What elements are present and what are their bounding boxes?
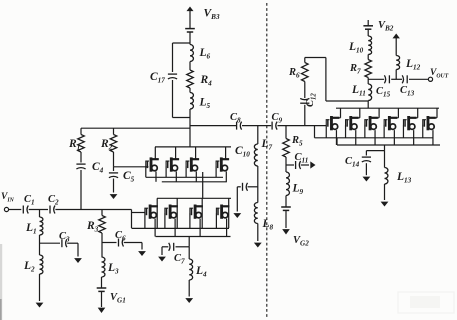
source stub M14 (432, 130, 434, 145)
ground of L4 (185, 280, 193, 303)
gate tick M5 (144, 213, 146, 228)
label L1 (25, 222, 37, 236)
drain rail right segment (190, 125, 237, 127)
svg-text:L5: L5 (199, 97, 211, 111)
gate feed step (132, 210, 145, 229)
gate tick M12 (383, 125, 385, 138)
label R7 (349, 63, 361, 76)
output row gate bus (315, 137, 434, 139)
label C8 (230, 112, 241, 125)
svg-text:C11: C11 (295, 152, 309, 165)
output row bottom rail (337, 144, 440, 146)
gate tick M7 (189, 213, 191, 228)
ground of L2 (36, 274, 44, 308)
capacitor C17 (168, 74, 177, 79)
svg-text:L6: L6 (199, 47, 211, 61)
transistor M4 cascode (216, 157, 229, 171)
wire R2 to node (113, 152, 115, 167)
inductor L10 (368, 36, 371, 55)
drain stub M1 (154, 147, 156, 159)
ground of C14 (363, 163, 371, 181)
drain rail left segment (81, 127, 190, 129)
feedback wire to drain node (305, 58, 368, 102)
gate bus to source rail link (336, 138, 338, 145)
wire L7 to C10 node (257, 166, 259, 203)
label C2 (48, 194, 59, 207)
gate tick M3 (185, 166, 187, 177)
gate tick M9 (325, 125, 327, 138)
supply stub VB2 rail (367, 20, 369, 26)
svg-text:C8: C8 (230, 112, 241, 125)
capacitor C6 branch (102, 239, 124, 247)
svg-text:VB2: VB2 (378, 20, 394, 33)
source stub M12 (393, 130, 395, 145)
label VG1 (110, 292, 126, 305)
gate tick M6 (164, 213, 166, 228)
wire source rail to tee (366, 145, 384, 151)
bias source VG2 (281, 196, 291, 211)
label L10 (348, 41, 364, 55)
svg-text:R4: R4 (200, 74, 213, 88)
capacitor C10 branch (243, 183, 258, 191)
drain stub M13 (416, 108, 418, 118)
arrow VG1 (98, 292, 106, 314)
svg-text:L10: L10 (348, 41, 364, 55)
capacitor C13 (402, 75, 407, 83)
capacitor C2 (50, 206, 55, 214)
svg-text:VG1: VG1 (110, 292, 126, 305)
transistor M9 output (326, 116, 339, 130)
source stub M2 (175, 172, 177, 182)
capacitor C12 (300, 98, 309, 125)
transistor M6 input (165, 205, 178, 219)
label R6 (288, 67, 300, 80)
drain stub M11 (377, 108, 379, 118)
label C15 (376, 86, 391, 99)
resistor R4 (187, 70, 194, 88)
ground of C10 (233, 187, 241, 218)
svg-text:C14: C14 (345, 156, 360, 169)
svg-text:L1: L1 (25, 222, 37, 236)
ground of C3 (67, 243, 82, 263)
capacitor C7 branch (169, 243, 190, 251)
wire node to C17 branch (173, 42, 191, 44)
inductor L5 (190, 93, 193, 110)
capacitor C17 branch wire lower (173, 80, 191, 118)
drain stub M9 (338, 108, 340, 118)
svg-text:L2: L2 (23, 260, 35, 274)
svg-text:C3: C3 (59, 231, 70, 244)
source stub M7 (199, 219, 201, 237)
gate tick M13 (402, 125, 404, 138)
label L3 (107, 262, 119, 276)
label C10 (235, 145, 250, 159)
power supply VB3 arrow (187, 7, 194, 29)
drain stub M12 (396, 108, 398, 118)
wire L10-R7 (367, 55, 369, 60)
cascode gate bus (146, 176, 223, 178)
source stub M5 (154, 219, 156, 237)
interstage shunt wire (257, 126, 259, 144)
svg-text:C5: C5 (123, 170, 135, 184)
wire node to C15 (368, 78, 384, 80)
resistor R1 (78, 128, 85, 152)
source stub M1 (155, 172, 157, 182)
input row gate bus (132, 227, 230, 229)
svg-text:C6: C6 (115, 230, 126, 243)
wire R3 node (101, 233, 103, 257)
gate tick M1 (145, 166, 147, 177)
drain stub M4 (225, 147, 227, 159)
drain stub M5 (156, 198, 158, 228)
capacitor C11 branch (286, 161, 301, 169)
resistor R6 (301, 63, 308, 82)
label C9 (272, 112, 283, 125)
source stub M13 (413, 130, 415, 145)
svg-text:L4: L4 (195, 265, 207, 279)
label C7 (174, 253, 185, 266)
svg-text:C17: C17 (150, 71, 165, 85)
resistor R7 (365, 60, 372, 78)
svg-text:C9: C9 (272, 112, 283, 125)
transistor M5 input (145, 205, 158, 219)
resistor R3 (99, 210, 106, 234)
svg-text:C7: C7 (174, 253, 185, 266)
bypass/feed symbol at VB3 (185, 29, 195, 32)
resistor R2 (110, 128, 117, 152)
wire L11 to output rail (367, 101, 369, 109)
label R1 (68, 138, 80, 152)
capacitor C1 (23, 206, 28, 214)
svg-text:R1: R1 (68, 138, 80, 152)
ground of C7 (158, 247, 168, 262)
label R4 (200, 74, 213, 88)
inductor L9 (286, 172, 289, 196)
label C6 (115, 230, 126, 243)
label C11 (295, 152, 309, 165)
drain stub M14 (435, 108, 437, 118)
transistor M12 output (384, 116, 397, 130)
capacitor C17 branch wire upper (172, 43, 174, 72)
transistor M10 output (346, 116, 359, 130)
wire cascode gate feed (114, 166, 149, 168)
output terminal (428, 77, 432, 81)
label L8 (262, 218, 274, 232)
svg-text:C2: C2 (48, 194, 59, 207)
ground of C5 (110, 179, 118, 200)
drain stub M8 (228, 198, 230, 228)
transistor M7 input (190, 205, 203, 219)
drain stub M10 (358, 108, 360, 118)
svg-text:R7: R7 (349, 63, 361, 76)
svg-text:L8: L8 (262, 218, 274, 232)
svg-text:C4: C4 (92, 161, 104, 175)
label L11 (351, 84, 366, 98)
svg-text:R6: R6 (288, 67, 300, 80)
wire R4-L5 (189, 88, 191, 93)
inductor L13 (385, 151, 388, 184)
arrow VB2 (393, 34, 400, 56)
inductor L1 (40, 210, 43, 236)
gate feed to output row (314, 126, 316, 138)
resistor R5 (283, 126, 290, 157)
label L7 (261, 138, 273, 152)
svg-text:L3: L3 (107, 262, 119, 276)
label L12 (405, 58, 421, 72)
source stub M8 (226, 219, 228, 237)
cascode row top rail (155, 146, 231, 148)
wire C13 to output terminal (409, 78, 428, 80)
wire C12-R6 (304, 82, 306, 99)
svg-text:L11: L11 (351, 84, 366, 98)
wire C2 to gate line (55, 209, 131, 211)
label VIN (1, 192, 15, 204)
svg-text:C1: C1 (24, 194, 35, 207)
ground arrow of C11 (301, 161, 316, 168)
source stub M3 (195, 172, 197, 182)
svg-text:L13: L13 (396, 171, 412, 185)
inductor L11 (368, 84, 371, 101)
capacitor C9 (272, 122, 277, 130)
transistor M14 output (423, 116, 436, 130)
inductor L2 (40, 255, 43, 274)
capacitor C8 (237, 122, 242, 130)
inductor L8 (254, 203, 257, 224)
transistor M1 cascode (146, 157, 159, 171)
wire C8-C9 (242, 125, 271, 127)
transistor M13 output (403, 116, 416, 130)
wire to L10 (367, 30, 369, 36)
label VOUT (430, 68, 449, 80)
wire source rail to L4 (188, 237, 190, 247)
inductor L7 (254, 144, 257, 166)
bias source VG1 (97, 277, 107, 291)
svg-text:VB3: VB3 (204, 8, 220, 22)
label C14 (345, 156, 360, 169)
gate tick M14 (422, 125, 424, 138)
drain stub M2 (175, 147, 177, 159)
arrow VG2 (282, 211, 290, 235)
wire R1-C4 (80, 152, 82, 163)
label C1 (24, 194, 35, 207)
label L13 (396, 171, 412, 185)
wire C15-C13 (391, 78, 402, 80)
wire R5 node (285, 157, 287, 172)
inductor L6 (190, 43, 193, 62)
gate tick M4 (215, 166, 217, 177)
drain stub M3 (195, 147, 197, 159)
transistor M11 output (365, 116, 378, 130)
capacitor C5 (109, 167, 118, 178)
inductor L12 branch (396, 56, 399, 80)
capacitor C3 branch (40, 239, 67, 247)
svg-text:R2: R2 (100, 138, 113, 152)
stage boundary dashed line (266, 3, 268, 318)
transistor M2 cascode (166, 157, 179, 171)
wire L6-R4 (189, 62, 191, 71)
label C12 (305, 93, 317, 107)
inductor L4 (189, 247, 192, 280)
gate tick M8 (215, 213, 217, 228)
drain stub M6 (176, 198, 178, 228)
capacitor C4 (76, 164, 85, 169)
wire C9 to gate network (278, 125, 327, 127)
label C13 (400, 85, 415, 98)
transistor M3 cascode (186, 157, 199, 171)
source stub M10 (355, 130, 357, 145)
source stub M4 (225, 172, 227, 182)
label C4 (92, 161, 104, 175)
label C5 (123, 170, 135, 184)
svg-text:VOUT: VOUT (430, 68, 449, 80)
wire L5 to drain rail (189, 109, 191, 147)
label L5 (199, 97, 211, 111)
ground of L8 (254, 224, 262, 248)
bypass/feed symbol at VB2 rail (363, 26, 373, 29)
svg-text:C10: C10 (235, 145, 250, 159)
label L4 (195, 265, 207, 279)
ground of C6 (124, 243, 146, 257)
capacitor C15 (384, 75, 389, 83)
label C3 (59, 231, 70, 244)
svg-text:VIN: VIN (1, 192, 15, 204)
label L6 (199, 47, 211, 61)
svg-text:C13: C13 (400, 85, 415, 98)
svg-text:C15: C15 (376, 86, 391, 99)
cascode to input row connector (202, 172, 204, 198)
svg-text:L9: L9 (292, 183, 304, 197)
wire VIN-C1 (9, 209, 22, 211)
label VB2 (378, 20, 394, 33)
inductor L3 (102, 257, 105, 277)
svg-text:VG2: VG2 (293, 235, 309, 248)
input row top rail (157, 197, 231, 199)
output row top rail (336, 107, 439, 109)
svg-text:R3: R3 (86, 220, 99, 234)
input terminal (4, 207, 8, 211)
input row bottom rail (156, 236, 231, 238)
capacitor C14 (362, 151, 371, 162)
svg-text:L12: L12 (405, 58, 421, 72)
wire C4 to gate line (80, 170, 82, 210)
wire L1 node (39, 235, 41, 255)
source stub M11 (374, 130, 376, 145)
cascode row bottom rail (162, 181, 227, 183)
transistor M8 input (216, 205, 229, 219)
wire VB3 to node (189, 32, 191, 43)
gate tick M10 (345, 125, 347, 138)
label L2 (23, 260, 35, 274)
svg-text:R5: R5 (291, 135, 303, 148)
svg-text:L7: L7 (261, 138, 273, 152)
label R2 (100, 138, 113, 152)
wire C1-C2 (29, 209, 48, 211)
label L9 (292, 183, 304, 197)
scan ghost artefact (398, 292, 454, 313)
source stub M9 (335, 130, 337, 145)
drain stub M7 (201, 198, 203, 228)
label R3 (86, 220, 99, 234)
label VG2 (293, 235, 309, 248)
gate tick M2 (165, 166, 167, 177)
label VB3 (204, 8, 220, 22)
gate tick M11 (364, 125, 366, 138)
left-edge scan artefact (0, 244, 2, 320)
wire R7 to node (367, 78, 369, 85)
source stub M6 (174, 219, 176, 237)
label C17 (150, 71, 165, 85)
label R5 (291, 135, 303, 148)
ground of L13 (381, 184, 389, 207)
